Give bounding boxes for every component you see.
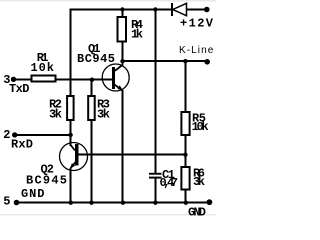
svg-text:3k: 3k [97, 108, 110, 122]
svg-text:10k: 10k [31, 61, 55, 75]
svg-text:5: 5 [3, 195, 10, 209]
svg-text:3k: 3k [193, 175, 205, 189]
svg-text:GND: GND [21, 187, 45, 201]
svg-text:+12V: +12V [180, 17, 214, 31]
svg-text:RxD: RxD [11, 138, 33, 152]
svg-text:3k: 3k [49, 108, 62, 122]
svg-text:K-Line: K-Line [179, 45, 214, 56]
svg-text:0,47: 0,47 [160, 176, 179, 190]
svg-text:TxD: TxD [9, 82, 30, 96]
svg-text:10k: 10k [192, 120, 209, 134]
svg-text:BC945: BC945 [77, 52, 115, 66]
svg-text:BC945: BC945 [26, 174, 67, 188]
svg-text:1k: 1k [131, 28, 143, 42]
svg-text:2: 2 [3, 128, 10, 142]
svg-text:GND: GND [188, 206, 206, 219]
